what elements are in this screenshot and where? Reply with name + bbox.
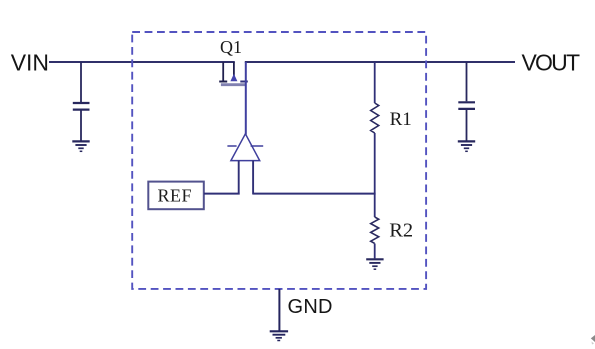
output capacitor C2 [458, 102, 475, 109]
resistor R1 [371, 103, 379, 133]
Q1 body lead [233, 62, 235, 78]
op-amp non-inverting input lead [252, 161, 254, 195]
wire Q1 drain / op-amp output node [245, 62, 247, 135]
watermark arrow bottom-right [591, 335, 595, 342]
op-amp right input tick [251, 145, 264, 147]
ground C1 [72, 141, 89, 151]
Q1 source lead [222, 62, 224, 82]
wire VOUT rail to R1 [374, 62, 376, 103]
wire VIN rail to Q1 source [49, 61, 235, 63]
Q1 drain contact tick [240, 81, 248, 83]
wire C1 top lead [80, 62, 82, 102]
input capacitor C1 [73, 103, 90, 110]
Q1 gate bar [221, 83, 246, 86]
wire GND stub [278, 289, 280, 331]
svg-text:VIN: VIN [11, 50, 49, 76]
svg-text:R2: R2 [389, 220, 413, 242]
wire feedback tap to op-amp input [253, 193, 376, 195]
op-amp left input tick [227, 145, 236, 147]
ground R2 [366, 259, 383, 269]
wire C2 top lead [466, 62, 468, 101]
svg-text:R1: R1 [390, 109, 412, 130]
wire R2 bottom lead [374, 244, 376, 259]
wire REF output to op-amp input [204, 193, 240, 195]
reference block REF [148, 182, 204, 210]
ground GND pin [270, 331, 288, 340]
ground C2 [458, 141, 475, 151]
Q1 source contact tick [219, 81, 227, 83]
wire VOUT rail from Q1 drain [245, 61, 515, 63]
wire R1 to feedback node to R2 [374, 133, 376, 217]
wire C1 bottom lead [80, 110, 82, 140]
wire C2 bottom lead [466, 110, 468, 141]
svg-text:REF: REF [158, 186, 192, 206]
svg-text:Q1: Q1 [220, 37, 242, 57]
Q1 body arrow [230, 74, 237, 81]
op-amp U1 error amplifier [227, 134, 263, 195]
transistor Q1 pass device [219, 62, 248, 85]
svg-text:VOUT: VOUT [522, 50, 581, 76]
op-amp inverting input lead [238, 161, 240, 195]
IC boundary dashed box [132, 32, 426, 289]
resistor R2 [371, 217, 379, 243]
op-amp triangle [231, 134, 260, 161]
svg-text:GND: GND [288, 296, 333, 318]
